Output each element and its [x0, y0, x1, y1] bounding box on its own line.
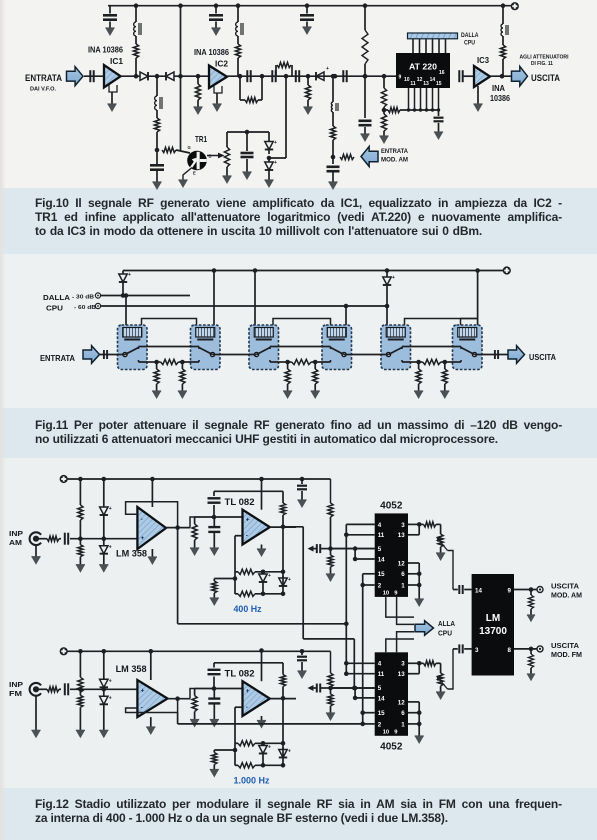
svg-text:ENTRATA: ENTRATA	[25, 73, 62, 83]
svg-text:15: 15	[378, 571, 385, 578]
svg-text:G: G	[188, 145, 191, 150]
svg-text:-: -	[246, 532, 248, 539]
svg-text:+: +	[141, 535, 145, 542]
svg-text:+: +	[274, 140, 277, 146]
svg-text:14: 14	[430, 77, 436, 83]
svg-text:12: 12	[417, 77, 423, 83]
svg-text:1: 1	[401, 582, 405, 589]
svg-text:CPU: CPU	[46, 304, 63, 313]
svg-text:16: 16	[439, 70, 445, 76]
svg-text:ALLA: ALLA	[438, 619, 456, 628]
svg-text:12: 12	[398, 560, 405, 567]
svg-text:9: 9	[399, 75, 402, 81]
svg-text:INA 10386: INA 10386	[88, 46, 123, 55]
svg-text:+: +	[326, 66, 329, 72]
svg-text:MOD. FM: MOD. FM	[551, 650, 582, 659]
svg-text:USCITA: USCITA	[529, 352, 556, 362]
svg-text:10386: 10386	[490, 94, 510, 103]
svg-text:TL 082: TL 082	[225, 669, 255, 679]
svg-text:+: +	[109, 545, 112, 551]
svg-text:USCITA: USCITA	[551, 641, 579, 650]
svg-text:+: +	[268, 745, 271, 751]
svg-text:3: 3	[401, 522, 405, 529]
svg-text:4: 4	[378, 661, 382, 668]
svg-text:11: 11	[410, 81, 416, 87]
svg-text:ENTRATA: ENTRATA	[40, 353, 75, 363]
svg-text:9: 9	[508, 588, 512, 595]
svg-text:TR1: TR1	[195, 135, 207, 144]
svg-text:4: 4	[378, 522, 382, 529]
svg-text:LM 358: LM 358	[116, 549, 147, 559]
svg-text:DALLA: DALLA	[43, 293, 70, 302]
svg-text:INP: INP	[9, 531, 23, 538]
svg-text:IC1: IC1	[110, 57, 123, 66]
svg-text:+: +	[392, 275, 395, 281]
svg-text:ENTRATA: ENTRATA	[381, 148, 408, 155]
svg-text:4052: 4052	[380, 741, 403, 752]
svg-text:5: 5	[378, 546, 382, 553]
svg-text:E: E	[193, 171, 196, 176]
svg-text:6: 6	[401, 710, 405, 717]
svg-text:-: -	[246, 704, 248, 711]
svg-text:10: 10	[404, 77, 410, 83]
svg-text:+: +	[109, 678, 112, 684]
svg-text:13: 13	[398, 671, 405, 678]
svg-text:+: +	[109, 506, 112, 512]
svg-text:DI FIG. 11: DI FIG. 11	[531, 61, 553, 67]
svg-text:5: 5	[378, 685, 382, 692]
svg-text:+: +	[288, 749, 291, 755]
svg-text:IC2: IC2	[215, 60, 228, 69]
svg-text:14: 14	[378, 556, 385, 563]
svg-text:10: 10	[383, 590, 389, 596]
svg-text:15: 15	[436, 81, 442, 87]
svg-text:LM 358: LM 358	[116, 664, 147, 674]
svg-text:USCITA: USCITA	[531, 73, 560, 84]
svg-text:INP: INP	[9, 682, 23, 689]
svg-text:4052: 4052	[380, 500, 403, 511]
svg-text:+: +	[109, 695, 112, 701]
svg-text:11: 11	[378, 671, 385, 678]
svg-text:CPU: CPU	[464, 40, 475, 47]
svg-text:FM: FM	[9, 691, 22, 698]
svg-text:6: 6	[401, 571, 405, 578]
svg-text:1: 1	[401, 721, 405, 728]
svg-text:+: +	[246, 516, 250, 523]
svg-text:DAI V.F.O.: DAI V.F.O.	[30, 87, 57, 93]
svg-text:14: 14	[378, 695, 385, 702]
svg-text:14: 14	[475, 588, 482, 595]
svg-text:IC3: IC3	[477, 56, 489, 65]
svg-text:11: 11	[378, 532, 385, 539]
svg-text:10: 10	[383, 729, 389, 735]
svg-text:+: +	[128, 272, 131, 278]
svg-text:DALLA: DALLA	[461, 32, 479, 39]
svg-text:MOD. AM: MOD. AM	[381, 157, 408, 164]
svg-text:AGLI ATTENUATORI: AGLI ATTENUATORI	[520, 55, 570, 61]
svg-text:AM: AM	[9, 540, 22, 547]
svg-text:AT 220: AT 220	[409, 62, 437, 72]
svg-text:400 Hz: 400 Hz	[234, 604, 262, 614]
svg-text:12: 12	[398, 699, 405, 706]
svg-text:8: 8	[508, 647, 512, 654]
svg-text:USCITA: USCITA	[551, 582, 579, 591]
svg-text:+: +	[246, 688, 250, 695]
svg-text:+: +	[268, 573, 271, 579]
svg-text:2: 2	[378, 582, 382, 589]
svg-text:INA: INA	[492, 84, 505, 93]
svg-text:13: 13	[398, 532, 405, 539]
svg-text:3: 3	[401, 661, 405, 668]
svg-text:1.000 Hz: 1.000 Hz	[234, 776, 270, 786]
svg-text:LM: LM	[486, 613, 500, 624]
svg-text:TL 082: TL 082	[225, 497, 255, 507]
svg-text:INA 10386: INA 10386	[194, 48, 229, 57]
svg-text:CPU: CPU	[438, 629, 452, 638]
svg-text:+: +	[288, 577, 291, 583]
svg-text:2: 2	[378, 721, 382, 728]
svg-text:+: +	[274, 160, 277, 166]
svg-text:- 30 dB: - 30 dB	[72, 294, 95, 300]
svg-text:3: 3	[475, 647, 479, 654]
svg-text:13: 13	[423, 81, 429, 87]
svg-text:13700: 13700	[479, 626, 507, 637]
svg-text:+: +	[141, 687, 145, 694]
svg-text:15: 15	[378, 710, 385, 717]
svg-text:-: -	[141, 704, 143, 711]
svg-text:-: -	[141, 516, 143, 523]
svg-text:- 60 dB: - 60 dB	[74, 305, 97, 311]
svg-text:MOD. AM: MOD. AM	[551, 591, 582, 600]
